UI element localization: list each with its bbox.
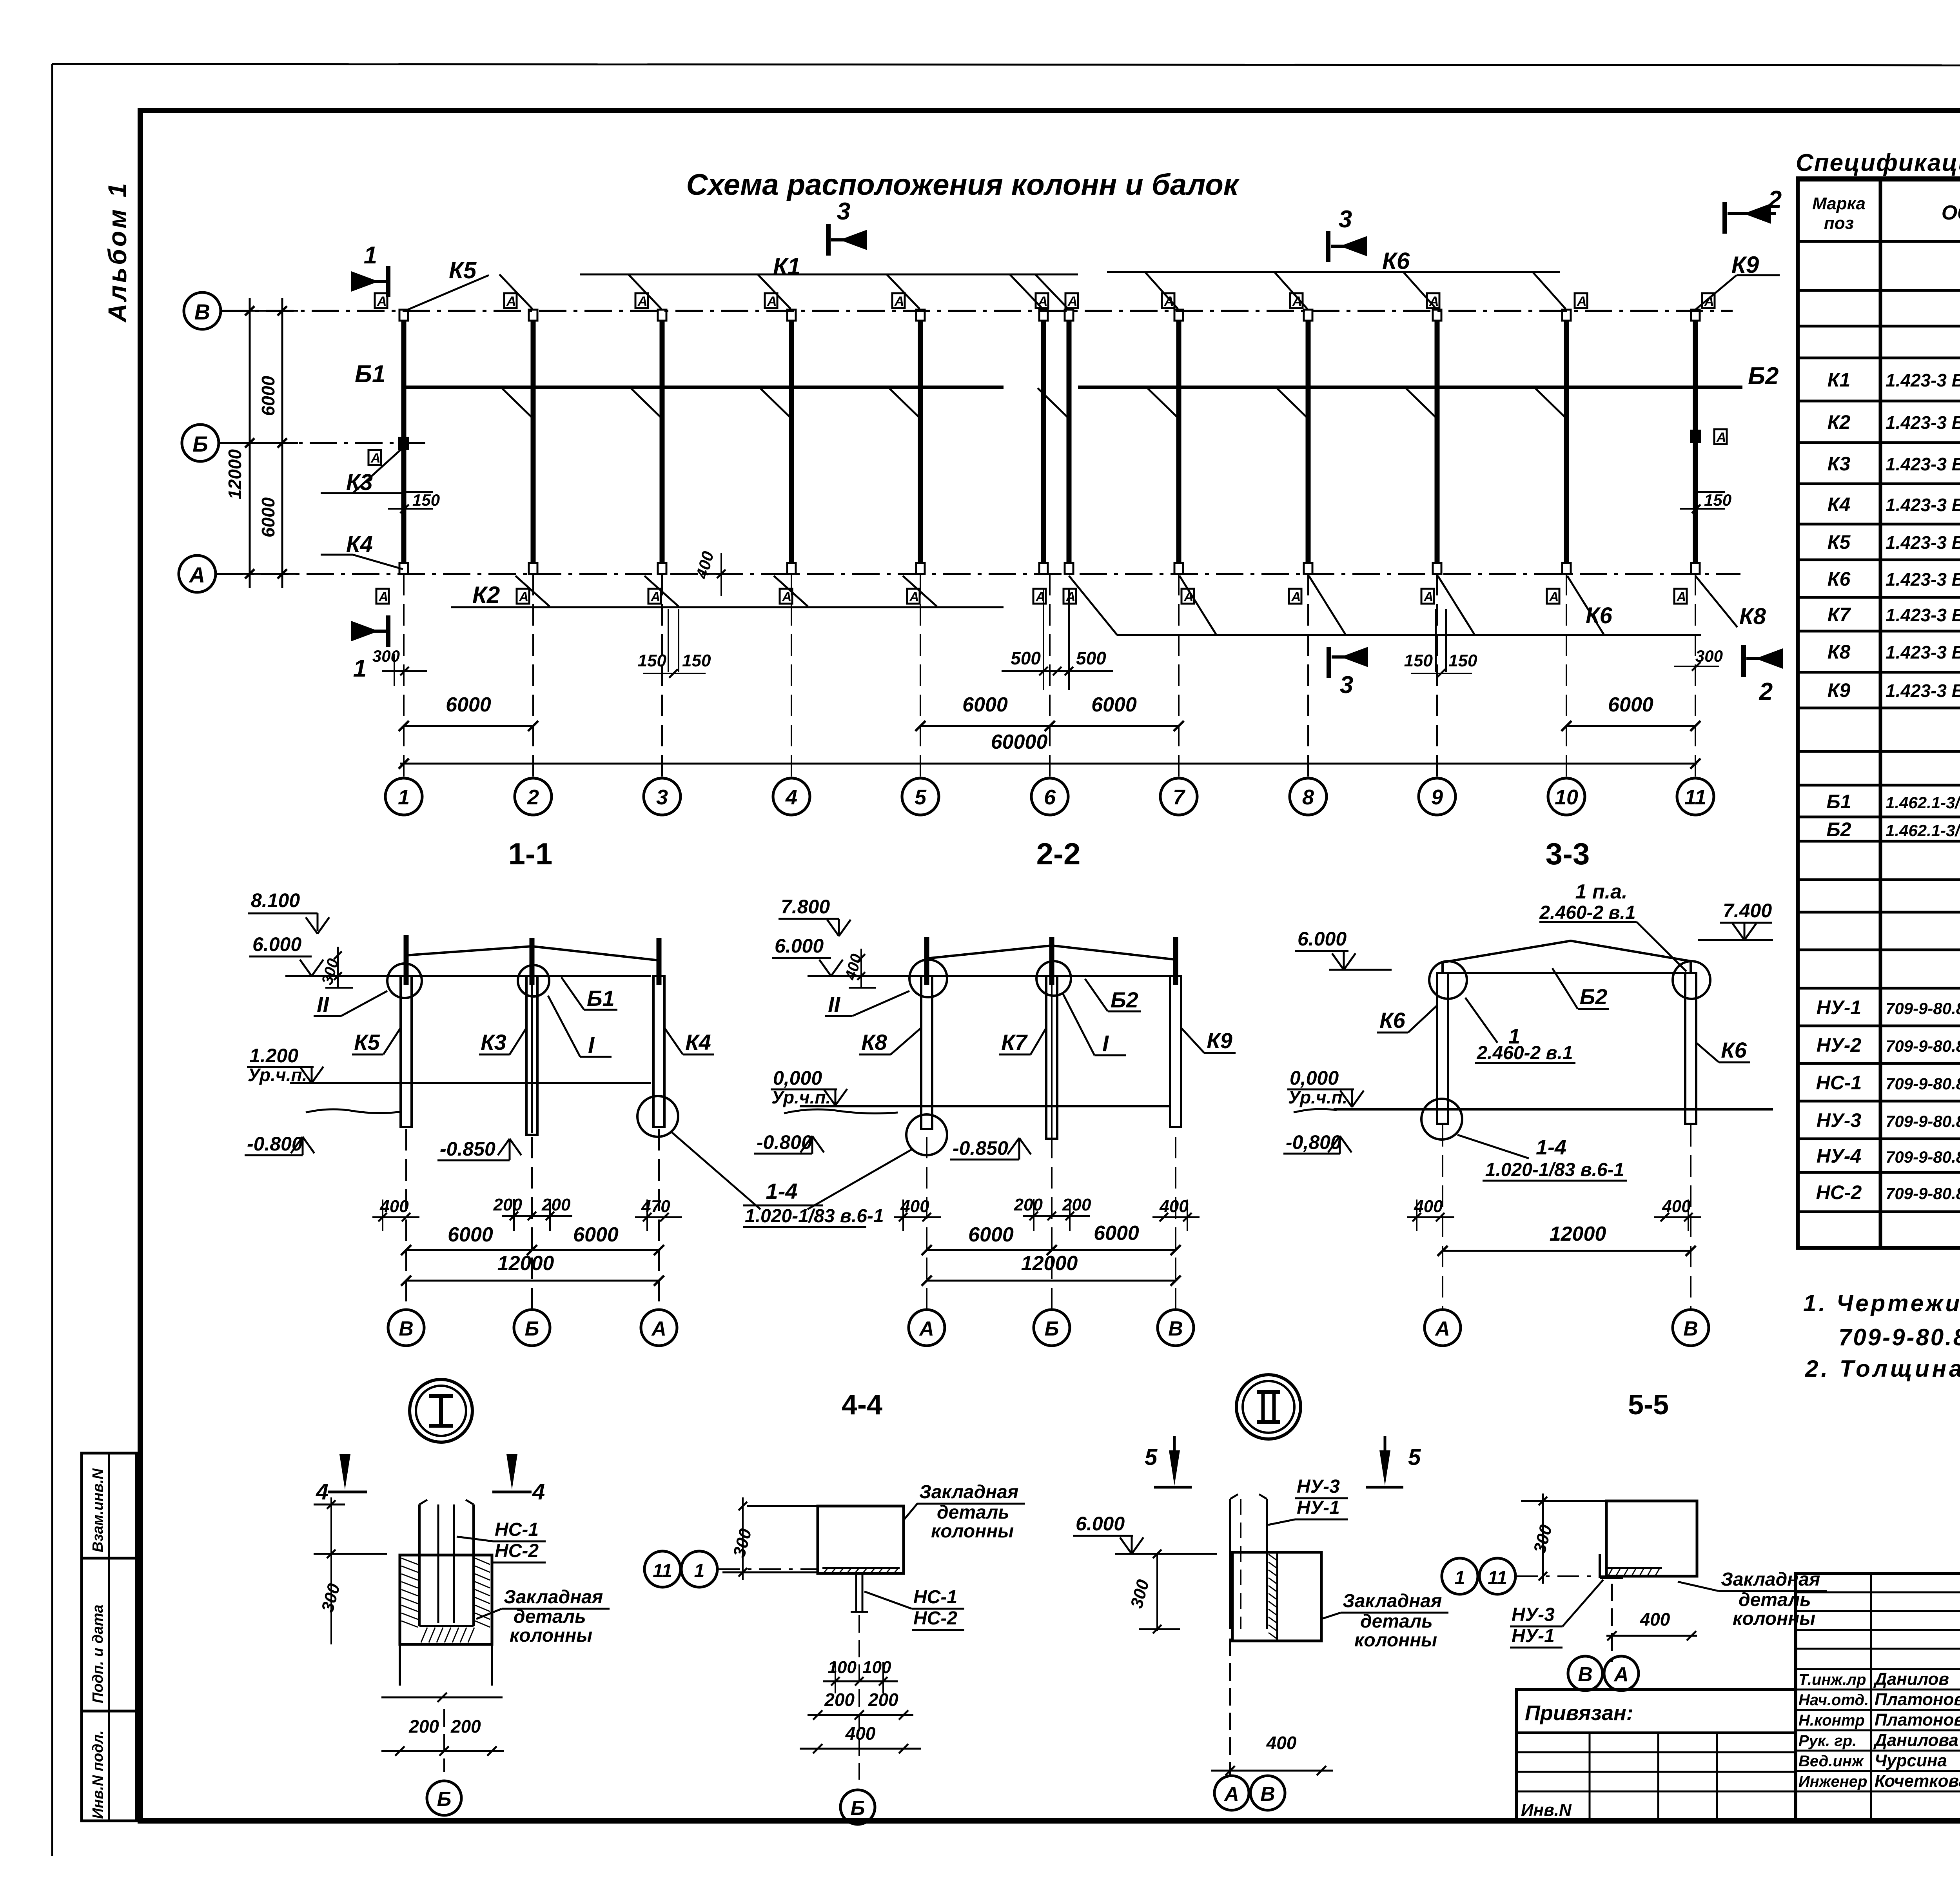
- detail I circle Б: [427, 1781, 461, 1815]
- svg-text:колонны: колонны: [1354, 1630, 1437, 1651]
- svg-text:12000: 12000: [497, 1252, 554, 1275]
- svg-text:Чурсина: Чурсина: [1875, 1751, 1947, 1770]
- svg-text:1.423-3 Вып.1; АСИ-0012: 1.423-3 Вып.1; АСИ-0012: [1886, 642, 1960, 662]
- svg-text:4: 4: [532, 1479, 545, 1504]
- svg-text:1-4: 1-4: [766, 1179, 798, 1203]
- anchor plate near K3: [368, 450, 381, 465]
- svg-text:Данилова: Данилова: [1873, 1731, 1958, 1750]
- svg-text:200: 200: [1014, 1195, 1043, 1214]
- svg-text:Нач.отд.: Нач.отд.: [1798, 1691, 1869, 1709]
- svg-text:7: 7: [1173, 786, 1186, 809]
- svg-text:2: 2: [527, 786, 539, 809]
- floor line s1: [290, 1082, 651, 1084]
- small dim 150 at grid11: [1697, 491, 1725, 493]
- svg-text:1.423-3 Вып.1:АСИ-0013: 1.423-3 Вып.1:АСИ-0013: [1886, 681, 1960, 701]
- svg-text:150: 150: [682, 651, 711, 670]
- svg-text:К6: К6: [1586, 603, 1613, 628]
- svg-text:Обозначение: Обозначение: [1942, 201, 1960, 224]
- svg-text:К6: К6: [1382, 248, 1410, 274]
- svg-text:А: А: [767, 294, 777, 309]
- svg-text:А: А: [651, 1317, 666, 1340]
- detail 5-5 box: [1606, 1501, 1697, 1576]
- svg-text:1.423-3 Вып.1; АСИ-0006: 1.423-3 Вып.1; АСИ-0006: [1886, 412, 1960, 433]
- svg-text:200: 200: [408, 1716, 439, 1737]
- svg-text:2-2: 2-2: [1036, 837, 1081, 871]
- witness lines s1: [405, 1129, 407, 1309]
- svg-text:А: А: [918, 1317, 934, 1340]
- detail 5-5 circles В А: [1568, 1656, 1602, 1691]
- svg-text:2. Толщина сварных швов hш=: 2. Толщина сварных швов hш= 6мм: [1805, 1356, 1960, 1382]
- detail node II symbol: [1236, 1375, 1301, 1439]
- svg-text:Закладная: Закладная: [504, 1587, 603, 1608]
- svg-text:9: 9: [1431, 786, 1443, 809]
- svg-text:А: А: [1577, 294, 1587, 309]
- svg-text:Б1: Б1: [587, 986, 615, 1011]
- svg-text:НС-1: НС-1: [1816, 1072, 1862, 1094]
- svg-text:709-9-80.87ал.2 АСИ-0029.01: 709-9-80.87ал.2 АСИ-0029.01: [1886, 1184, 1960, 1203]
- svg-text:1-4: 1-4: [1536, 1136, 1566, 1159]
- svg-text:400: 400: [379, 1197, 409, 1216]
- detail II circles А В: [1214, 1776, 1249, 1810]
- svg-text:4-4: 4-4: [842, 1389, 882, 1421]
- svg-text:Привязан:: Привязан:: [1525, 1701, 1633, 1725]
- svg-text:200: 200: [450, 1716, 481, 1737]
- svg-text:1: 1: [353, 655, 367, 682]
- svg-text:1 п.а.: 1 п.а.: [1575, 880, 1628, 903]
- svg-text:Схема расположения колонн и: Схема расположения колонн и балок: [686, 168, 1240, 201]
- svg-text:150: 150: [1404, 651, 1433, 670]
- svg-text:400: 400: [1414, 1197, 1443, 1216]
- svg-text:1.423-3 Вып.1; АСИ-0010: 1.423-3 Вып.1; АСИ-0010: [1886, 569, 1960, 590]
- svg-text:12000: 12000: [1021, 1252, 1078, 1275]
- svg-text:К5: К5: [354, 1030, 380, 1054]
- svg-text:НС-2: НС-2: [1816, 1181, 1862, 1203]
- svg-text:1.462.1-3/80 Вып.1; АСИ-0004: 1.462.1-3/80 Вып.1; АСИ-0004: [1886, 821, 1960, 840]
- svg-text:1.020-1/83 в.6-1: 1.020-1/83 в.6-1: [1485, 1160, 1624, 1180]
- detail 5-5 dim 300: [1521, 1500, 1606, 1502]
- svg-text:Кочеткова: Кочеткова: [1875, 1771, 1960, 1791]
- svg-text:Б2: Б2: [1826, 818, 1851, 840]
- svg-text:К6: К6: [1379, 1008, 1405, 1033]
- svg-text:6000: 6000: [446, 693, 491, 716]
- svg-text:1.423-3 Вып.1: АСИ-0011: 1.423-3 Вып.1: АСИ-0011: [1886, 605, 1960, 625]
- svg-text:1: 1: [1455, 1568, 1465, 1588]
- svg-text:200: 200: [541, 1195, 571, 1214]
- lower label line right (К6/К8): [1117, 634, 1701, 636]
- svg-text:А: А: [1613, 1663, 1629, 1686]
- svg-text:А: А: [506, 294, 516, 309]
- detail I pedestal: [399, 1644, 401, 1686]
- detail II column: [1229, 1499, 1231, 1629]
- svg-text:1.462.1-3/80Вып.1;АСИ-0003: 1.462.1-3/80Вып.1;АСИ-0003: [1886, 793, 1960, 812]
- svg-text:Рук. гр.: Рук. гр.: [1798, 1732, 1857, 1749]
- detail 4-4 circle Б: [840, 1790, 875, 1824]
- svg-text:А: А: [650, 590, 661, 604]
- detail 4-4 ref circles 11 1: [644, 1551, 681, 1587]
- svg-text:100: 100: [862, 1658, 891, 1677]
- svg-text:А: А: [189, 563, 205, 587]
- base circle К4 s1: [637, 1096, 678, 1137]
- svg-text:1. Чертежи марки АСИ смотре: 1. Чертежи марки АСИ смотреть типовой пр…: [1803, 1290, 1960, 1316]
- svg-text:НС-2: НС-2: [913, 1608, 957, 1629]
- svg-text:Подп. и дата: Подп. и дата: [90, 1604, 106, 1703]
- svg-text:Б: Б: [192, 432, 208, 456]
- axis Б line: [219, 442, 425, 444]
- svg-text:1.423-3 Вып.1;АСИ-0007: 1.423-3 Вып.1;АСИ-0007: [1886, 454, 1960, 474]
- svg-text:1.423-3 Вып.1:АСИ-0009: 1.423-3 Вып.1:АСИ-0009: [1886, 532, 1960, 553]
- columns on plan: [401, 320, 407, 564]
- witness lines s2: [926, 1137, 927, 1309]
- K2 label line bottom: [451, 606, 1004, 608]
- black node K7 on axis Б grid 11: [1690, 430, 1701, 443]
- svg-text:К9: К9: [1731, 252, 1759, 278]
- svg-text:К8: К8: [1828, 641, 1851, 663]
- svg-text:К3: К3: [1828, 453, 1851, 475]
- svg-text:60000: 60000: [991, 731, 1048, 753]
- dim 6000 row s1: [406, 1249, 659, 1251]
- section marker 2 bottom: [1741, 645, 1746, 677]
- svg-text:К3: К3: [346, 470, 373, 495]
- svg-text:Вед.инж: Вед.инж: [1798, 1753, 1864, 1770]
- svg-text:11: 11: [1488, 1568, 1507, 1588]
- anchor plate near K7: [1714, 429, 1727, 444]
- svg-text:200: 200: [824, 1689, 855, 1710]
- svg-text:1.200: 1.200: [249, 1045, 298, 1067]
- svg-text:В: В: [194, 299, 210, 324]
- svg-text:колонны: колонны: [931, 1521, 1014, 1542]
- ground line s1: [306, 1109, 402, 1113]
- K1 label line with slashes to column tops: [580, 274, 1078, 276]
- svg-text:Б1: Б1: [1826, 791, 1851, 813]
- svg-text:200: 200: [868, 1689, 898, 1710]
- svg-text:Данилов: Данилов: [1873, 1670, 1949, 1689]
- svg-text:В: В: [1168, 1317, 1183, 1340]
- detail 5-5 ref circles 1 11: [1442, 1558, 1478, 1594]
- svg-text:6000: 6000: [573, 1223, 619, 1246]
- svg-text:10: 10: [1555, 786, 1578, 809]
- svg-text:Б: Б: [525, 1317, 539, 1340]
- svg-text:Б: Б: [851, 1797, 865, 1820]
- detail I level lines: [314, 1553, 387, 1555]
- svg-text:К3: К3: [481, 1030, 506, 1054]
- leader 1-4 from bases: [671, 1132, 760, 1209]
- svg-text:3: 3: [837, 198, 850, 225]
- columns K8 K7 K9: [921, 976, 932, 1129]
- svg-text:6000: 6000: [1091, 693, 1137, 716]
- beam line Б2: [1078, 386, 1742, 389]
- svg-text:НУ-3: НУ-3: [1512, 1604, 1555, 1625]
- svg-text:НУ-3: НУ-3: [1817, 1109, 1862, 1131]
- svg-text:К6: К6: [1828, 568, 1851, 590]
- dim 12000 s3: [1443, 1250, 1691, 1252]
- svg-text:К5: К5: [1828, 531, 1851, 553]
- svg-text:К2: К2: [472, 582, 500, 608]
- svg-text:-0,800: -0,800: [1286, 1131, 1341, 1153]
- svg-text:колонны: колонны: [510, 1625, 592, 1646]
- svg-text:1: 1: [364, 242, 377, 269]
- svg-text:709-9-80.87 Альбом 2: 709-9-80.87 Альбом 2: [1838, 1324, 1960, 1350]
- floor line s2: [800, 1105, 1170, 1107]
- svg-text:НУ-1: НУ-1: [1817, 996, 1861, 1018]
- dim 12000 s2: [927, 1280, 1176, 1282]
- svg-text:II: II: [828, 992, 841, 1017]
- privyazan table: [1517, 1689, 1796, 1821]
- svg-text:3: 3: [656, 786, 668, 809]
- svg-text:Б: Б: [437, 1788, 452, 1811]
- svg-text:0,000: 0,000: [773, 1067, 822, 1089]
- svg-text:А: А: [1434, 1317, 1450, 1340]
- svg-text:6.000: 6.000: [775, 935, 824, 957]
- svg-text:709-9-80.87Ап.2АСИ-0028: 709-9-80.87Ап.2АСИ-0028: [1886, 999, 1960, 1018]
- svg-text:А: А: [370, 451, 381, 466]
- svg-text:А: А: [377, 294, 387, 309]
- dim 12000 s1: [406, 1280, 659, 1282]
- circles ВБА s1: [388, 1310, 424, 1346]
- svg-text:3: 3: [1339, 206, 1352, 233]
- svg-text:6000: 6000: [1094, 1222, 1139, 1245]
- svg-text:8: 8: [1302, 786, 1314, 809]
- svg-text:400: 400: [1640, 1609, 1670, 1630]
- svg-text:1.423-3 Вып.1; АСИ-0008: 1.423-3 Вып.1; АСИ-0008: [1886, 495, 1960, 515]
- svg-text:деталь: деталь: [514, 1606, 586, 1627]
- svg-text:К4: К4: [685, 1030, 711, 1054]
- K6 label line top: [1107, 271, 1560, 273]
- section marker 2 top: [1722, 202, 1727, 234]
- svg-text:7.800: 7.800: [781, 896, 830, 918]
- svg-text:400: 400: [1159, 1197, 1189, 1216]
- svg-text:Б1: Б1: [355, 361, 385, 388]
- svg-text:-0.850: -0.850: [953, 1137, 1008, 1159]
- svg-text:1.020-1/83 в.6-1: 1.020-1/83 в.6-1: [745, 1206, 884, 1227]
- detail I socket: [400, 1555, 492, 1644]
- svg-text:А: А: [1676, 590, 1686, 604]
- left margin stamps: [82, 1453, 136, 1558]
- svg-text:5: 5: [915, 786, 927, 809]
- svg-text:300: 300: [318, 1581, 344, 1614]
- svg-text:Б2: Б2: [1748, 363, 1779, 390]
- svg-text:А: А: [1423, 590, 1434, 604]
- detail 4-4 pin: [855, 1573, 857, 1612]
- svg-text:12000: 12000: [1550, 1223, 1606, 1245]
- svg-text:Инв.N: Инв.N: [1521, 1800, 1572, 1820]
- svg-text:НУ-1: НУ-1: [1297, 1497, 1340, 1518]
- total 60000 dim: [400, 763, 1697, 765]
- axis circle Б: [182, 425, 219, 461]
- svg-text:6.000: 6.000: [1076, 1513, 1125, 1535]
- svg-text:Б2: Б2: [1580, 984, 1608, 1009]
- svg-text:Б: Б: [1045, 1317, 1059, 1340]
- svg-text:300: 300: [1127, 1577, 1153, 1610]
- svg-text:6.000: 6.000: [252, 933, 301, 955]
- svg-text:1: 1: [694, 1561, 705, 1581]
- svg-text:НС-2: НС-2: [495, 1541, 539, 1561]
- section 1-1 posts: [404, 935, 409, 985]
- svg-text:А: А: [894, 294, 904, 309]
- svg-text:В: В: [399, 1317, 414, 1340]
- section marker 3 bottom: [1327, 647, 1331, 678]
- grid circles 1..11: [403, 574, 405, 778]
- svg-text:150: 150: [412, 491, 440, 509]
- svg-text:II: II: [317, 992, 330, 1017]
- svg-text:К2: К2: [1828, 411, 1851, 433]
- section marker 1 top: [386, 266, 390, 297]
- svg-text:НУ-4: НУ-4: [1817, 1145, 1861, 1167]
- svg-text:6000: 6000: [968, 1223, 1014, 1246]
- anchor plate symbols top row: [375, 293, 387, 308]
- svg-text:5: 5: [1408, 1445, 1421, 1470]
- svg-text:Взам.инв.N: Взам.инв.N: [90, 1468, 106, 1552]
- columns К6 s3: [1437, 973, 1448, 1124]
- svg-text:100: 100: [828, 1658, 857, 1677]
- svg-text:Н.контр: Н.контр: [1798, 1712, 1865, 1729]
- detail node I symbol: [410, 1379, 472, 1442]
- svg-text:709-9-80.87ал.2АСИ-0029: 709-9-80.87ал.2АСИ-0029: [1886, 1074, 1960, 1093]
- svg-text:А: А: [637, 294, 648, 309]
- svg-text:-0.850: -0.850: [440, 1138, 495, 1160]
- witness lines s3: [1442, 1125, 1443, 1309]
- detail I column shaft: [418, 1504, 421, 1556]
- svg-text:8.100: 8.100: [251, 889, 300, 911]
- grid bottom dimension rows: [404, 725, 533, 727]
- svg-text:11: 11: [1684, 786, 1706, 809]
- svg-text:Т.инж.лр: Т.инж.лр: [1798, 1671, 1866, 1688]
- outer thin border: [52, 64, 1960, 66]
- svg-text:Ур.ч.п.: Ур.ч.п.: [1288, 1087, 1347, 1107]
- svg-text:6000: 6000: [258, 376, 278, 416]
- axis circle А: [179, 555, 216, 592]
- svg-text:400: 400: [900, 1197, 929, 1216]
- svg-text:400: 400: [1266, 1733, 1297, 1753]
- svg-text:К9: К9: [1207, 1028, 1232, 1053]
- svg-text:Инженер: Инженер: [1798, 1773, 1867, 1790]
- svg-text:А: А: [1065, 590, 1076, 604]
- svg-text:НС-1: НС-1: [495, 1519, 539, 1540]
- ground line s2: [784, 1109, 898, 1113]
- svg-text:500: 500: [1076, 648, 1106, 668]
- svg-text:К1: К1: [773, 253, 800, 279]
- detail 4-4 dim 300: [747, 1505, 818, 1507]
- svg-text:поз: поз: [1824, 214, 1854, 233]
- svg-text:А: А: [1549, 590, 1559, 604]
- signatures table: [1796, 1573, 1960, 1821]
- section marker 1 bottom: [386, 615, 390, 647]
- circles А В s3: [1425, 1310, 1461, 1346]
- svg-text:6000: 6000: [962, 693, 1008, 716]
- svg-text:300: 300: [1530, 1523, 1556, 1555]
- svg-text:деталь: деталь: [937, 1502, 1009, 1523]
- detail 4-4 box: [818, 1506, 904, 1573]
- svg-text:К8: К8: [1739, 604, 1766, 629]
- svg-text:К1: К1: [1828, 369, 1851, 391]
- svg-text:I: I: [1102, 1031, 1109, 1056]
- ground line s3: [1334, 1108, 1773, 1111]
- svg-text:709-9-80.87ал.2 АСИ-0028.02: 709-9-80.87ал.2 АСИ-0028.02: [1886, 1112, 1960, 1131]
- svg-text:К7: К7: [1828, 604, 1851, 626]
- svg-text:400: 400: [845, 1723, 876, 1744]
- svg-text:В: В: [1683, 1317, 1698, 1340]
- svg-text:А: А: [1067, 294, 1078, 309]
- small dim 150 at grid1: [406, 491, 433, 493]
- section marker 3 top-right: [1326, 231, 1330, 262]
- svg-text:6000: 6000: [258, 497, 278, 537]
- black node K3 on axis Б grid 1: [398, 437, 409, 450]
- svg-text:3-3: 3-3: [1546, 837, 1590, 871]
- svg-text:2.460-2 в.1: 2.460-2 в.1: [1476, 1043, 1573, 1063]
- svg-text:Закладная: Закладная: [1343, 1591, 1442, 1611]
- section 1-1 bottom chord / 6.000 line: [285, 975, 651, 977]
- axis A line: [216, 573, 1740, 575]
- section 2-2 posts: [924, 937, 929, 985]
- svg-text:2: 2: [1759, 678, 1773, 705]
- svg-text:150: 150: [1704, 491, 1731, 509]
- svg-text:Марка: Марка: [1812, 194, 1866, 213]
- svg-text:1-1: 1-1: [508, 837, 553, 871]
- svg-text:Альбом 1: Альбом 1: [103, 181, 132, 323]
- svg-text:А: А: [1716, 430, 1726, 445]
- anchor plate symbols bottom row: [376, 589, 389, 604]
- svg-text:0,000: 0,000: [1290, 1067, 1339, 1089]
- svg-text:К4: К4: [346, 532, 373, 557]
- node circles s3: [1429, 961, 1467, 999]
- svg-text:7.400: 7.400: [1723, 900, 1772, 922]
- spec table grid: [1798, 180, 1960, 1248]
- svg-text:6000: 6000: [448, 1223, 493, 1246]
- svg-text:709-9-80.87ал.2 АСИ-0028.03: 709-9-80.87ал.2 АСИ-0028.03: [1886, 1148, 1960, 1166]
- beam line Б1: [404, 386, 1004, 389]
- svg-text:200: 200: [1062, 1195, 1091, 1214]
- section marker 3 top-left: [826, 224, 831, 256]
- detail II dim 300: [1156, 1554, 1158, 1631]
- svg-text:3: 3: [1340, 671, 1353, 699]
- svg-text:6.000: 6.000: [1298, 928, 1347, 950]
- svg-text:НУ-3: НУ-3: [1297, 1476, 1340, 1497]
- svg-text:6000: 6000: [1608, 693, 1653, 716]
- svg-text:А: А: [519, 590, 529, 604]
- svg-text:709-9-80.87ап.2 АСИ-0028,01: 709-9-80.87ап.2 АСИ-0028,01: [1886, 1037, 1960, 1055]
- svg-text:1.423-3 Вып.1; АСИ-0005: 1.423-3 Вып.1; АСИ-0005: [1886, 370, 1960, 390]
- svg-text:К4: К4: [1828, 494, 1851, 515]
- node circles s1: [387, 964, 422, 998]
- svg-text:А: А: [909, 590, 919, 604]
- svg-text:А: А: [378, 590, 388, 604]
- svg-text:1: 1: [398, 786, 410, 809]
- svg-text:В: В: [1578, 1663, 1593, 1686]
- svg-text:4: 4: [785, 786, 797, 809]
- svg-text:500: 500: [1011, 648, 1041, 668]
- svg-text:150: 150: [1448, 651, 1477, 670]
- svg-text:Инв.N подл.: Инв.N подл.: [90, 1730, 106, 1819]
- leader from К8 base to 1-4: [808, 1149, 913, 1209]
- node circles s2: [909, 960, 947, 997]
- svg-text:Платонова: Платонова: [1875, 1690, 1960, 1709]
- svg-text:6: 6: [1044, 786, 1056, 809]
- svg-text:НС-1: НС-1: [913, 1587, 957, 1608]
- base circle s3: [1421, 1099, 1462, 1140]
- section 1-1 beam top chord: [406, 946, 659, 960]
- svg-text:Платонова: Платонова: [1875, 1710, 1960, 1729]
- base circle К8 s2: [906, 1114, 947, 1155]
- left vertical dimension lines: [249, 298, 251, 588]
- svg-text:Б2: Б2: [1111, 987, 1138, 1012]
- section 3-3 beam: [1443, 941, 1691, 962]
- svg-text:-0.800: -0.800: [757, 1131, 812, 1153]
- svg-text:Закладная: Закладная: [919, 1482, 1018, 1503]
- svg-text:5: 5: [1145, 1445, 1158, 1470]
- svg-text:5-5: 5-5: [1628, 1389, 1669, 1421]
- svg-text:11: 11: [653, 1561, 672, 1581]
- dim 6000 row s2: [927, 1249, 1176, 1251]
- svg-text:К9: К9: [1828, 679, 1851, 701]
